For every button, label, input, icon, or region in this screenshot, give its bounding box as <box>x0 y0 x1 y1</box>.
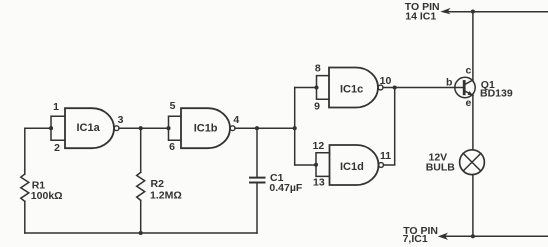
svg-text:12: 12 <box>313 140 325 152</box>
wire: R1 bottom to ground rail <box>24 201 26 233</box>
transistor Q1 collector diagonal <box>464 80 473 85</box>
svg-text:IC1c: IC1c <box>340 84 363 96</box>
node: IC1c input junction <box>314 85 318 89</box>
node: top rail junction <box>471 9 475 13</box>
transistor Q1 base bar <box>463 82 466 94</box>
wire: IC1b output to splitter <box>235 127 295 129</box>
gate IC1d input bracket pins 12,13 <box>316 153 330 177</box>
node: C1 top junction <box>255 126 259 130</box>
node: bottom rail junction <box>471 234 475 238</box>
gate IC1b input bracket pins 5,6 <box>169 116 182 140</box>
capacitor C1 <box>250 178 265 183</box>
IC1c output bubble pin 10 <box>378 85 383 90</box>
svg-text:4: 4 <box>233 114 239 126</box>
wire: C1 top lead <box>256 128 258 176</box>
resistor R2 <box>137 172 145 200</box>
svg-text:0.47µF: 0.47µF <box>269 182 302 194</box>
svg-text:BULB: BULB <box>426 162 456 174</box>
svg-text:IC1b: IC1b <box>194 123 218 135</box>
svg-text:2: 2 <box>54 142 60 154</box>
transistor Q1 emitter diagonal <box>464 91 473 96</box>
svg-text:6: 6 <box>169 141 175 153</box>
node: IC1d input junction <box>314 163 318 167</box>
node: IC1b input junction <box>166 126 170 130</box>
svg-text:8: 8 <box>315 63 321 75</box>
svg-text:13: 13 <box>313 177 325 189</box>
wire: bulb down to bottom rail <box>472 175 474 237</box>
transistor Q1 circle <box>455 77 475 97</box>
wire: left input wire from IC1a inputs down to R1 <box>25 128 51 174</box>
svg-text:7,IC1: 7,IC1 <box>403 233 428 245</box>
wire: splitter to IC1c inputs <box>295 87 317 89</box>
IC1a output bubble pin 3 <box>114 126 119 131</box>
transistor Q1 emitter arrowhead <box>468 91 473 95</box>
wire: emitter down to bulb <box>472 95 474 150</box>
svg-text:IC1d: IC1d <box>340 161 364 173</box>
wire: R2 top stub <box>140 128 142 172</box>
wire: C1 bottom lead to ground rail <box>256 184 258 234</box>
arrow: to pin 14 <box>440 8 450 14</box>
lamp bulb X <box>463 153 481 171</box>
resistor R1 <box>21 174 29 201</box>
svg-text:c: c <box>466 65 472 77</box>
svg-text:IC1a: IC1a <box>77 122 101 134</box>
node: gate outputs junction <box>393 85 397 89</box>
wire: splitter vertical to IC1c and IC1d <box>294 88 296 166</box>
IC1b output bubble pin 4 <box>230 126 235 131</box>
svg-text:14 IC1: 14 IC1 <box>405 10 436 22</box>
svg-text:3: 3 <box>118 114 124 126</box>
NAND gate IC1d body <box>330 145 379 185</box>
wire: left ground rail <box>25 232 257 234</box>
svg-text:9: 9 <box>314 101 320 113</box>
wire: collector up to supply rail <box>472 12 474 81</box>
NAND gate IC1c body <box>329 68 378 108</box>
svg-text:1.2MΩ: 1.2MΩ <box>150 189 182 201</box>
wire: IC1c output to transistor base <box>383 87 464 89</box>
lamp bulb circle <box>460 150 485 175</box>
svg-text:e: e <box>466 97 472 109</box>
wire: top supply rail <box>447 11 548 13</box>
svg-text:b: b <box>446 77 452 89</box>
arrow: to pin 7 <box>438 233 448 240</box>
svg-text:11: 11 <box>380 150 391 162</box>
op-amp? no: NAND gate IC1a body <box>65 108 114 148</box>
node: R2 top junction <box>139 126 143 130</box>
svg-text:R2: R2 <box>151 178 165 190</box>
wire: bottom rail <box>445 235 548 237</box>
node: IC1a input junction <box>49 126 53 130</box>
gate IC1c input bracket pins 8,9 <box>317 76 330 100</box>
wire: junction down to IC1d output <box>384 88 395 166</box>
svg-text:100kΩ: 100kΩ <box>31 190 63 202</box>
svg-text:1: 1 <box>53 101 59 113</box>
wire: splitter to IC1d inputs <box>295 164 317 166</box>
gate IC1a input bracket pins 1,2 <box>51 116 65 140</box>
NAND gate IC1b body <box>181 108 230 148</box>
IC1d output bubble pin 11 <box>379 163 384 168</box>
node: splitter junction <box>293 126 297 130</box>
node: R2 bottom junction <box>139 231 143 235</box>
svg-text:BD139: BD139 <box>480 87 513 99</box>
svg-text:5: 5 <box>170 100 176 112</box>
svg-text:10: 10 <box>380 75 392 87</box>
wire: IC1a output to IC1b input <box>119 127 169 129</box>
wire: R2 bottom to ground rail <box>140 200 142 233</box>
